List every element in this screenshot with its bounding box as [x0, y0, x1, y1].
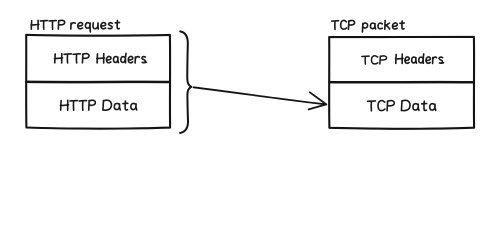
text: label HTTP request - word request [71, 20, 120, 31]
arrowhead [309, 92, 327, 109]
text: cell text TCP Data - word Data [401, 100, 435, 110]
text: cell text HTTP Data - word HTTP [60, 100, 95, 110]
text: cell text TCP Headers - word Headers [396, 54, 444, 64]
text: cell text TCP Data - word TCP [368, 101, 395, 111]
text: cell text HTTP Data - word Data [103, 100, 137, 110]
divider line between TCP Headers and TCP Data [329, 81, 474, 84]
text: cell text TCP Headers - word TCP [362, 56, 387, 64]
text: cell text HTTP Headers - word Headers [97, 53, 147, 63]
text: cell text HTTP Headers - word HTTP [55, 54, 89, 63]
box: HTTP request outer rectangle [26, 35, 170, 129]
text: label TCP packet - word packet [362, 20, 404, 32]
curly brace grouping HTTP request box [180, 31, 191, 133]
text: label TCP packet - word TCP [332, 20, 355, 29]
arrow shaft: brace to TCP packet [194, 87, 327, 104]
text: label HTTP request - word HTTP [31, 20, 65, 29]
divider line between HTTP Headers and HTTP Data [26, 81, 170, 84]
box: TCP packet outer rectangle [329, 37, 474, 129]
